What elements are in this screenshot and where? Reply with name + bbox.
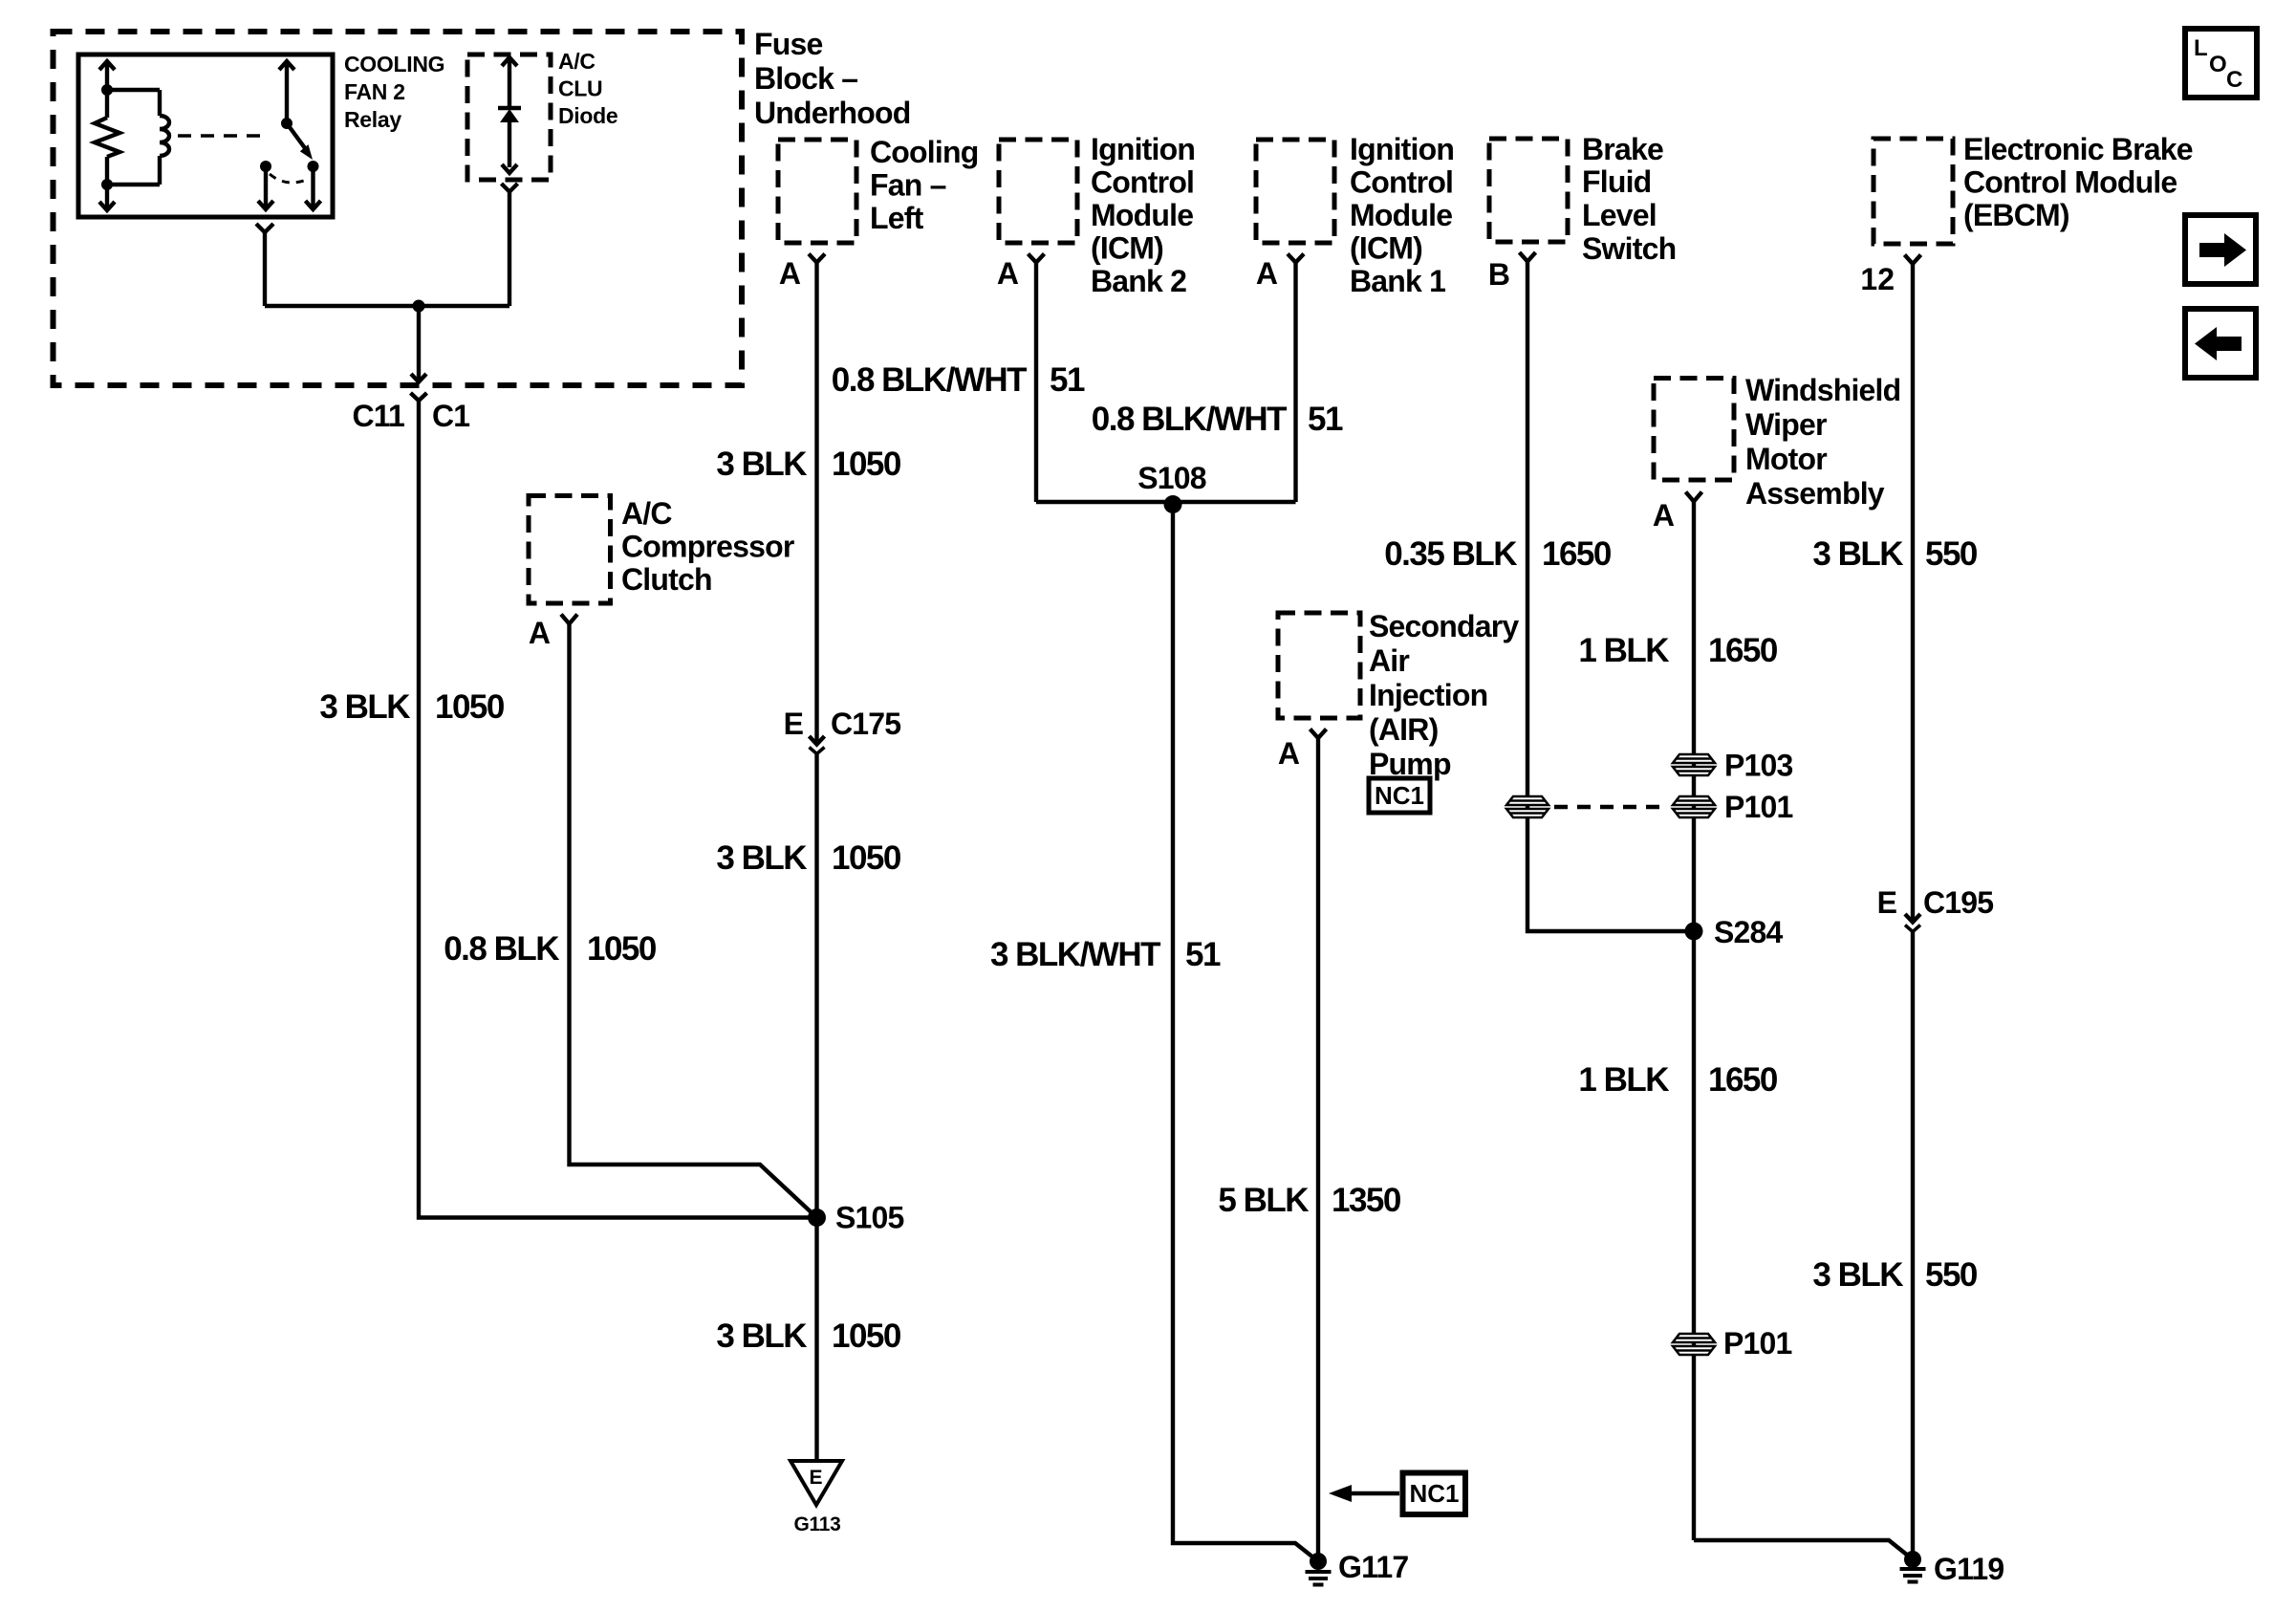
svg-text:Bank 2: Bank 2 (1091, 264, 1186, 298)
svg-text:51: 51 (1185, 936, 1221, 973)
svg-text:(ICM): (ICM) (1350, 231, 1422, 266)
svg-text:Relay: Relay (344, 107, 401, 132)
svg-text:A: A (1256, 256, 1278, 291)
svg-text:3 BLK: 3 BLK (1812, 1256, 1903, 1294)
relay contact NO lead (306, 166, 321, 209)
svg-text:0.8 BLK/WHT: 0.8 BLK/WHT (1092, 401, 1287, 438)
wire S108 bus (1036, 500, 1296, 504)
connector P103 symbol (1673, 754, 1715, 775)
legend LOC box (2185, 29, 2257, 98)
svg-text:Fuse: Fuse (754, 27, 823, 61)
svg-text:3 BLK/WHT: 3 BLK/WHT (990, 936, 1160, 973)
svg-text:NC1: NC1 (1409, 1479, 1459, 1508)
connector box cooling fan left (778, 140, 856, 243)
dashed pairing line to P101 (1554, 805, 1667, 809)
svg-text:Diode: Diode (558, 103, 617, 128)
wire ICM bank 1 to S108 (1293, 263, 1297, 503)
wire EBCM segment 1 (1911, 264, 1915, 922)
wire bus inside fuse block (265, 304, 509, 308)
wire wiper to G119 (1694, 1540, 1913, 1559)
svg-text:Secondary: Secondary (1369, 609, 1519, 643)
svg-text:Bank 1: Bank 1 (1350, 264, 1445, 298)
ground G119 dot (1904, 1551, 1921, 1568)
relay contact NC dot (260, 161, 271, 172)
svg-text:CLU: CLU (558, 76, 602, 101)
svg-text:C175: C175 (831, 707, 900, 741)
svg-text:S284: S284 (1714, 915, 1784, 949)
svg-text:1350: 1350 (1332, 1182, 1401, 1219)
brake fluid level switch label (1582, 132, 1676, 266)
svg-text:3 BLK: 3 BLK (716, 446, 807, 483)
relay contact dashed arc (270, 174, 309, 183)
svg-text:E: E (784, 707, 804, 741)
svg-text:550: 550 (1925, 535, 1978, 573)
svg-text:L: L (2194, 35, 2208, 61)
diode label (558, 49, 617, 128)
wire relay output down (263, 237, 267, 306)
svg-text:P101: P101 (1724, 790, 1793, 824)
svg-text:A: A (1653, 498, 1675, 533)
svg-text:COOLING: COOLING (344, 52, 444, 76)
fuse block label (754, 27, 910, 130)
cooling fan pin connector Y (809, 254, 825, 263)
svg-text:Fluid: Fluid (1582, 164, 1651, 199)
svg-text:1 BLK: 1 BLK (1578, 632, 1669, 669)
svg-text:1050: 1050 (832, 839, 901, 877)
connector C175 symbol arrow (810, 736, 825, 745)
svg-text:C11: C11 (352, 399, 404, 433)
wire C1 feed down to S105 (419, 401, 817, 1218)
relay resistor element (95, 61, 119, 210)
svg-text:Block –: Block – (754, 61, 857, 96)
legend arrow left box (2185, 309, 2256, 378)
svg-text:A: A (529, 616, 551, 650)
connector C175 symbol chevron (810, 748, 825, 754)
relay coil element (107, 90, 169, 185)
connector box ICM bank 1 (1256, 140, 1334, 243)
ground G117 symbol (1306, 1572, 1332, 1585)
EBCM pin connector Y (1905, 255, 1921, 265)
wiper motor pin connector Y (1686, 492, 1702, 502)
svg-text:A/C: A/C (558, 49, 596, 74)
wiper motor label (1745, 373, 1900, 511)
svg-text:E: E (1877, 885, 1897, 920)
svg-text:12: 12 (1860, 262, 1895, 296)
connector box brake fluid level switch (1489, 139, 1568, 242)
svg-text:1050: 1050 (587, 930, 657, 968)
svg-text:1650: 1650 (1708, 632, 1778, 669)
svg-text:Air: Air (1369, 643, 1409, 678)
relay K: cooling fan 2 relay solid box (78, 54, 333, 217)
svg-text:Electronic Brake: Electronic Brake (1963, 132, 2193, 166)
svg-text:Left: Left (870, 201, 924, 235)
clutch pin connector Y (561, 615, 577, 624)
legend arrow right box (2185, 215, 2256, 284)
svg-text:3 BLK: 3 BLK (1812, 535, 1903, 573)
relay contact NC lead (258, 166, 273, 209)
svg-text:Control Module: Control Module (1963, 165, 2177, 200)
svg-text:A: A (1278, 736, 1300, 771)
ground G119 symbol (1900, 1569, 1926, 1582)
relay switch common (279, 61, 294, 123)
relay label (344, 52, 444, 132)
ground G113 triangle symbol (791, 1461, 842, 1505)
relay coil node dot top (101, 84, 113, 96)
svg-text:3 BLK: 3 BLK (716, 1317, 807, 1355)
wire cooling fan ground segment 1 (814, 263, 818, 745)
ICM bank 2 pin connector Y (1029, 254, 1045, 263)
svg-text:1650: 1650 (1542, 535, 1612, 573)
wire cooling fan ground segment 2 (814, 754, 818, 1462)
ICM bank 1 label (1350, 132, 1454, 298)
connector C195 symbol arrow (1905, 914, 1920, 923)
connector P101 lower symbol (1673, 1334, 1715, 1355)
svg-text:Cooling: Cooling (870, 135, 978, 169)
svg-text:Brake: Brake (1582, 132, 1663, 166)
svg-text:3 BLK: 3 BLK (319, 688, 410, 726)
svg-text:3 BLK: 3 BLK (716, 839, 807, 877)
svg-text:0.8 BLK: 0.8 BLK (444, 930, 559, 968)
NC1 tag box under pump label (1369, 778, 1430, 813)
svg-text:Wiper: Wiper (1745, 407, 1827, 442)
svg-text:G117: G117 (1338, 1550, 1408, 1584)
NC1 reference arrow (1329, 1485, 1399, 1502)
svg-text:E: E (809, 1467, 822, 1489)
ground G117 dot (1310, 1553, 1327, 1570)
diode element (498, 57, 521, 173)
connector box windshield wiper motor assembly (1654, 379, 1734, 481)
svg-text:P103: P103 (1724, 749, 1793, 783)
svg-text:G119: G119 (1934, 1552, 2004, 1586)
connector box ICM bank 2 (999, 140, 1077, 243)
svg-text:A: A (997, 256, 1019, 291)
svg-text:S108: S108 (1137, 461, 1206, 495)
svg-text:Ignition: Ignition (1091, 132, 1195, 166)
svg-text:Fan –: Fan – (870, 168, 946, 203)
EBCM label (1963, 132, 2193, 232)
junction dot inside fuse block (413, 300, 425, 313)
connector box secondary air injection pump (1278, 613, 1360, 718)
svg-text:Injection: Injection (1369, 678, 1487, 712)
wire clutch ground to S105 (570, 624, 817, 1218)
ICM bank 1 pin connector Y (1288, 254, 1304, 263)
svg-text:1050: 1050 (832, 446, 901, 483)
svg-text:Module: Module (1350, 198, 1452, 232)
NC1 reference tag box (1403, 1473, 1466, 1515)
cooling fan left label (870, 135, 978, 235)
diode D: A/C CLU diode dashed box (467, 54, 551, 180)
relay contact NO dot (308, 161, 319, 172)
svg-text:Underhood: Underhood (754, 96, 910, 130)
svg-text:Assembly: Assembly (1745, 476, 1885, 511)
relay actuation dashed link (178, 134, 261, 138)
pass-through connector on brake wire (1506, 796, 1549, 817)
svg-text:Clutch: Clutch (621, 562, 712, 597)
svg-text:Level: Level (1582, 198, 1657, 232)
svg-text:0.8 BLK/WHT: 0.8 BLK/WHT (832, 361, 1027, 399)
wire EBCM segment 2 (1911, 932, 1915, 1567)
svg-text:550: 550 (1925, 1256, 1978, 1294)
wire brake switch to S284 (1527, 262, 1694, 932)
svg-text:(ICM): (ICM) (1091, 231, 1163, 266)
splice S284 dot (1685, 923, 1703, 941)
wire wiper motor down (1692, 502, 1696, 1541)
svg-text:O: O (2209, 52, 2227, 77)
svg-text:51: 51 (1308, 401, 1343, 438)
svg-text:1 BLK: 1 BLK (1578, 1061, 1669, 1099)
svg-text:5 BLK: 5 BLK (1218, 1182, 1309, 1219)
splice S105 dot (808, 1208, 826, 1227)
svg-text:Windshield: Windshield (1745, 373, 1900, 407)
relay output connector Y (256, 224, 273, 237)
connector box EBCM (1874, 139, 1953, 244)
diode output connector Y (502, 184, 518, 195)
svg-text:Compressor: Compressor (621, 530, 794, 564)
svg-text:1050: 1050 (435, 688, 505, 726)
wire junction to fuse block edge (411, 306, 426, 382)
svg-text:Motor: Motor (1745, 442, 1827, 476)
relay switch pivot dot (281, 118, 292, 129)
svg-text:0.35 BLK: 0.35 BLK (1384, 535, 1517, 573)
connector C195 symbol chevron (1905, 925, 1920, 932)
svg-text:C1: C1 (432, 399, 469, 433)
wire ICM bank 2 to S108 (1034, 263, 1038, 503)
svg-text:NC1: NC1 (1375, 781, 1424, 810)
relay coil node dot bottom (101, 179, 113, 190)
wire diode output down (508, 195, 511, 306)
svg-text:C: C (2226, 67, 2242, 93)
svg-text:(AIR): (AIR) (1369, 712, 1439, 747)
svg-text:Switch: Switch (1582, 231, 1676, 266)
relay switch blade (287, 123, 313, 160)
splice S108 dot (1164, 495, 1182, 513)
brake switch pin connector Y (1520, 252, 1536, 262)
svg-text:S105: S105 (835, 1201, 904, 1235)
svg-text:A/C: A/C (621, 496, 672, 531)
svg-text:(EBCM): (EBCM) (1963, 198, 2069, 232)
fuse block - underhood dashed box (54, 32, 743, 385)
svg-text:B: B (1488, 257, 1510, 292)
connector P101 symbol (1673, 796, 1715, 817)
svg-text:A: A (779, 256, 801, 291)
wire AIR pump to G117 (1316, 738, 1320, 1561)
svg-text:C195: C195 (1923, 885, 1993, 920)
svg-text:Module: Module (1091, 198, 1193, 232)
svg-text:Ignition: Ignition (1350, 132, 1454, 166)
A/C compressor clutch label (621, 496, 794, 597)
svg-text:P101: P101 (1723, 1326, 1792, 1361)
svg-text:1050: 1050 (832, 1317, 901, 1355)
svg-text:FAN 2: FAN 2 (344, 79, 405, 104)
svg-text:Control: Control (1091, 165, 1194, 200)
wire S108 to G117 (1173, 505, 1318, 1562)
svg-text:51: 51 (1050, 361, 1085, 399)
AIR pump label (1369, 609, 1519, 781)
svg-text:1650: 1650 (1708, 1061, 1778, 1099)
connector C11/C1 Y symbol (411, 393, 427, 401)
ICM bank 2 label (1091, 132, 1195, 298)
connector box A/C compressor clutch (529, 496, 611, 604)
svg-text:Control: Control (1350, 165, 1453, 200)
svg-text:G113: G113 (793, 1513, 840, 1535)
AIR pump pin connector Y (1310, 729, 1327, 739)
